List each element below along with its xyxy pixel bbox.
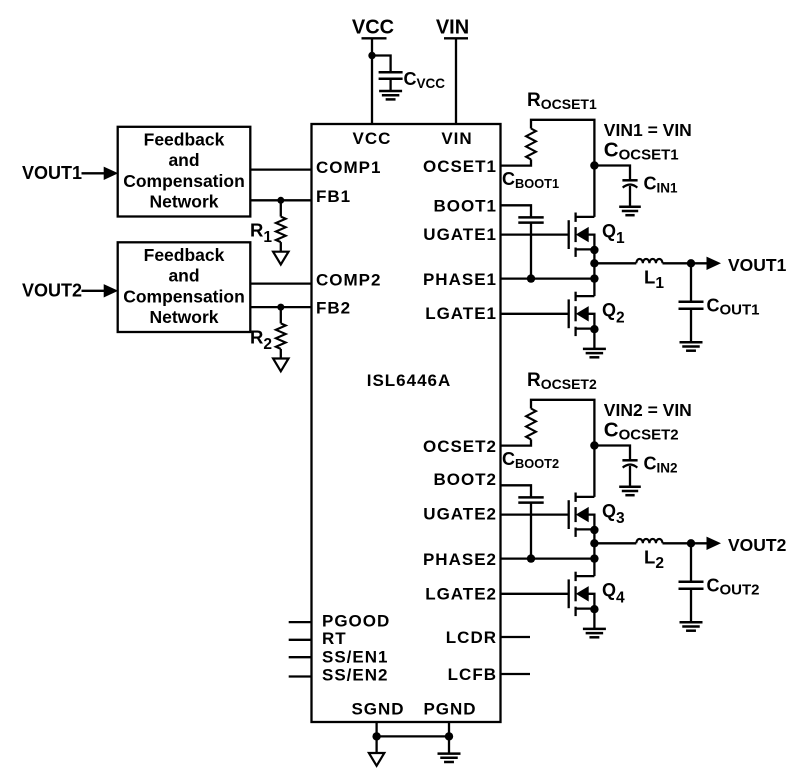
svg-text:VIN2 = VIN: VIN2 = VIN <box>604 400 692 420</box>
svg-text:SGND: SGND <box>351 700 404 719</box>
svg-text:VCC: VCC <box>353 129 392 148</box>
svg-text:VIN1 = VIN: VIN1 = VIN <box>604 120 692 140</box>
svg-text:COMP1: COMP1 <box>316 158 381 177</box>
svg-text:Feedback: Feedback <box>144 245 225 265</box>
svg-text:ISL6446A: ISL6446A <box>367 371 452 390</box>
svg-text:VOUT2: VOUT2 <box>22 280 82 300</box>
svg-text:LCFB: LCFB <box>448 665 497 684</box>
svg-text:UGATE2: UGATE2 <box>423 505 497 524</box>
svg-text:LGATE2: LGATE2 <box>425 585 497 604</box>
svg-text:Network: Network <box>149 192 218 212</box>
svg-text:FB1: FB1 <box>316 187 351 206</box>
svg-text:LCDR: LCDR <box>446 628 497 647</box>
svg-text:SS/EN1: SS/EN1 <box>322 647 388 666</box>
svg-text:FB2: FB2 <box>316 298 351 317</box>
svg-text:VOUT1: VOUT1 <box>728 255 787 275</box>
svg-text:RT: RT <box>322 629 347 648</box>
svg-text:BOOT2: BOOT2 <box>433 470 497 489</box>
svg-text:UGATE1: UGATE1 <box>423 225 497 244</box>
svg-text:VOUT2: VOUT2 <box>728 535 787 555</box>
svg-text:Feedback: Feedback <box>144 129 225 149</box>
svg-text:VIN: VIN <box>441 129 472 148</box>
svg-text:Network: Network <box>149 307 218 327</box>
svg-text:OCSET1: OCSET1 <box>423 157 497 176</box>
svg-text:VIN: VIN <box>436 17 469 39</box>
svg-text:PHASE2: PHASE2 <box>423 550 497 569</box>
svg-text:PHASE1: PHASE1 <box>423 270 497 289</box>
svg-text:and: and <box>168 150 199 170</box>
svg-text:PGND: PGND <box>423 700 476 719</box>
svg-text:and: and <box>168 266 199 286</box>
svg-text:LGATE1: LGATE1 <box>425 304 497 323</box>
svg-text:VCC: VCC <box>352 17 394 39</box>
svg-text:PGOOD: PGOOD <box>322 611 390 630</box>
svg-text:Compensation: Compensation <box>123 286 245 306</box>
svg-text:COMP2: COMP2 <box>316 270 381 289</box>
svg-text:SS/EN2: SS/EN2 <box>322 666 388 685</box>
svg-text:VOUT1: VOUT1 <box>22 163 82 183</box>
svg-text:Compensation: Compensation <box>123 171 245 191</box>
svg-text:BOOT1: BOOT1 <box>433 196 497 215</box>
svg-text:OCSET2: OCSET2 <box>423 437 497 456</box>
